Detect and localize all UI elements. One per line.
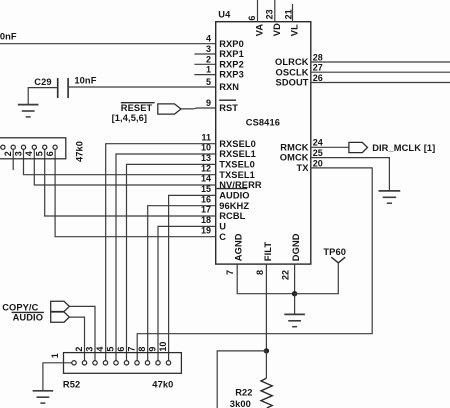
svg-text:1: 1 (50, 353, 60, 358)
wire RMCK pin 24 to flag (311, 146, 349, 148)
svg-text:AUDIO: AUDIO (13, 313, 43, 323)
svg-text:20: 20 (313, 158, 323, 168)
wire OLRCK pin 28 to edge (311, 61, 450, 63)
RN1 pin 2 stub (12, 149, 14, 170)
wire DGND junction to ground (294, 294, 296, 315)
svg-text:OMCK: OMCK (280, 153, 309, 163)
capacitor C29 (58, 78, 68, 98)
svg-text:8: 8 (137, 347, 147, 352)
svg-text:R52: R52 (63, 380, 80, 390)
svg-text:RXSEL1: RXSEL1 (219, 149, 256, 159)
wire OSCLK pin 27 to edge (311, 71, 450, 73)
svg-text:C29: C29 (34, 77, 51, 87)
svg-text:7: 7 (127, 347, 137, 352)
svg-text:7: 7 (225, 270, 235, 275)
svg-text:DIR_MCLK [1]: DIR_MCLK [1] (372, 143, 435, 153)
wire TX pin 20 route (137, 168, 372, 361)
svg-text:OSCLK: OSCLK (276, 67, 309, 77)
svg-text:RXSEL0: RXSEL0 (219, 139, 256, 149)
wire RCBL pin 17 to RN1 pin 5 (45, 149, 216, 216)
wire TXSEL0 pin 13 to R52 pin 6 (127, 164, 216, 360)
wire RESET flag to RST pin 9 (181, 107, 216, 110)
svg-text:10nF: 10nF (0, 31, 17, 41)
junction dot FILT/R22 (264, 348, 269, 353)
svg-text:4: 4 (206, 34, 211, 44)
svg-text:CS8416: CS8416 (246, 118, 280, 128)
svg-text:SDOUT: SDOUT (276, 78, 309, 88)
svg-text:VL: VL (290, 24, 300, 36)
wire C pin 19 to RN1 pin 6 (55, 149, 216, 236)
wire SDOUT pin 26 to edge (311, 82, 450, 84)
wire junction to R22 (265, 351, 267, 378)
svg-text:VD: VD (272, 23, 282, 36)
wire R52 pin 1 to ground (43, 363, 72, 391)
svg-text:47k0: 47k0 (75, 141, 85, 162)
svg-text:U4: U4 (218, 9, 231, 19)
svg-text:10: 10 (158, 342, 168, 352)
svg-text:10nF: 10nF (74, 75, 96, 85)
ground at OMCK (379, 191, 401, 203)
wire AUDIO pin 15 to R52 pin 10 (169, 195, 216, 360)
stub pin 3 RXP1 (194, 53, 215, 55)
svg-text:[1,4,5,6]: [1,4,5,6] (112, 113, 148, 123)
svg-text:27: 27 (313, 63, 323, 73)
svg-text:RESET: RESET (121, 103, 153, 113)
R52 pin circles (72, 361, 76, 365)
pin 7 AGND wire (237, 264, 294, 294)
svg-text:3: 3 (85, 347, 95, 352)
svg-text:4: 4 (24, 151, 34, 156)
wire TP60 to junction (295, 263, 339, 294)
svg-text:3k00: 3k00 (230, 399, 251, 408)
svg-text:25: 25 (313, 148, 323, 158)
svg-text:6: 6 (116, 347, 126, 352)
svg-text:C: C (219, 232, 226, 242)
svg-text:22: 22 (281, 270, 291, 280)
svg-text:21: 21 (283, 9, 293, 19)
wire TXSEL1 pin 12 to RN1 pin 3 (24, 149, 216, 174)
separator line (12, 311, 44, 313)
ground at R52 (33, 391, 54, 403)
wire C29 right plate to RXN pin 5 (68, 86, 216, 88)
svg-text:DGND: DGND (291, 233, 301, 261)
RN1 pin 1 wire to edge (0, 146, 2, 148)
svg-text:RST: RST (219, 103, 238, 113)
resistor R22 (261, 378, 272, 408)
pin 8 FILT wire (265, 264, 267, 351)
wire OMCK pin 25 to ground (311, 158, 390, 191)
svg-text:5: 5 (106, 347, 116, 352)
flag COPY/C (51, 301, 70, 311)
svg-text:TXSEL1: TXSEL1 (219, 170, 255, 180)
svg-text:U: U (219, 221, 226, 231)
IC U4 CS8416 body (216, 22, 311, 264)
svg-text:1: 1 (206, 65, 211, 75)
wire U pin 18 to R52 pin 9 (158, 226, 216, 360)
ground at DGND (284, 314, 305, 326)
flag AUDIO (51, 312, 70, 322)
svg-text:28: 28 (313, 52, 323, 62)
svg-text:5: 5 (206, 77, 211, 87)
svg-text:RXP0: RXP0 (219, 39, 244, 49)
svg-text:TX: TX (297, 163, 310, 173)
stub pin 2 RXP2 (194, 63, 215, 65)
svg-text:5: 5 (35, 151, 45, 156)
wire AUDIO to R52 pin 2 (69, 317, 84, 361)
svg-text:26: 26 (313, 73, 323, 83)
svg-text:11: 11 (201, 132, 211, 142)
svg-text:2: 2 (206, 54, 211, 64)
RN1 pin circles (1, 145, 5, 149)
wire C29 left plate to ground (28, 88, 58, 105)
svg-text:4: 4 (95, 347, 105, 352)
svg-text:24: 24 (313, 138, 323, 148)
resistor pack RN1 body (0, 138, 66, 159)
pin 22 DGND wire (294, 264, 296, 294)
svg-text:FILT: FILT (263, 242, 273, 262)
svg-text:RXP1: RXP1 (219, 49, 244, 59)
svg-text:8: 8 (255, 270, 265, 275)
svg-text:VA: VA (255, 24, 265, 37)
svg-text:OLRCK: OLRCK (275, 57, 309, 67)
wire RXSEL1 pin 10 to R52 pin 5 (116, 154, 216, 361)
svg-text:RXP2: RXP2 (219, 59, 244, 69)
svg-text:9: 9 (206, 98, 211, 108)
svg-text:47k0: 47k0 (152, 380, 173, 390)
svg-text:23: 23 (264, 9, 274, 19)
svg-text:9: 9 (148, 347, 158, 352)
svg-text:6: 6 (247, 16, 257, 21)
svg-text:2: 2 (74, 347, 84, 352)
wire junction to lower-left net (217, 351, 266, 408)
wire RXSEL0 pin 11 to R52 pin 4 (106, 144, 216, 361)
svg-text:RXN: RXN (219, 82, 239, 92)
svg-text:AGND: AGND (234, 233, 244, 261)
svg-text:COPY/C: COPY/C (2, 303, 38, 313)
svg-text:96KHZ: 96KHZ (219, 201, 249, 211)
wire 10nF net to RXP0 pin 4 (0, 43, 216, 45)
flag DIR_MCLK (349, 142, 368, 152)
pin 23 VD wire (274, 0, 276, 22)
stub pin 1 RXP3 (194, 74, 215, 76)
svg-text:AUDIO: AUDIO (219, 190, 249, 200)
svg-text:3: 3 (13, 151, 23, 156)
svg-text:RMCK: RMCK (280, 142, 308, 152)
svg-text:TP60: TP60 (323, 247, 346, 257)
wire NV/RERR pin 14 to RN1 pin 4 (34, 149, 215, 185)
svg-text:2: 2 (3, 151, 13, 156)
pin 6 VA wire (257, 0, 259, 22)
svg-text:3: 3 (206, 44, 211, 54)
wire 96KHZ pin 16 to R52 pin 8 (148, 206, 216, 361)
resistor pack R52 body (64, 353, 182, 374)
wire COPY/C to R52 pin 3 (69, 306, 95, 360)
svg-text:RCBL: RCBL (219, 211, 245, 221)
svg-text:R22: R22 (235, 387, 252, 397)
svg-text:6: 6 (45, 151, 55, 156)
ground under C29 (18, 105, 39, 117)
svg-text:TXSEL0: TXSEL0 (219, 159, 255, 169)
svg-text:RXP3: RXP3 (219, 70, 244, 80)
pin 21 VL wire (292, 4, 294, 22)
junction dot AGND/DGND (292, 291, 297, 296)
flag RESET (158, 104, 181, 114)
